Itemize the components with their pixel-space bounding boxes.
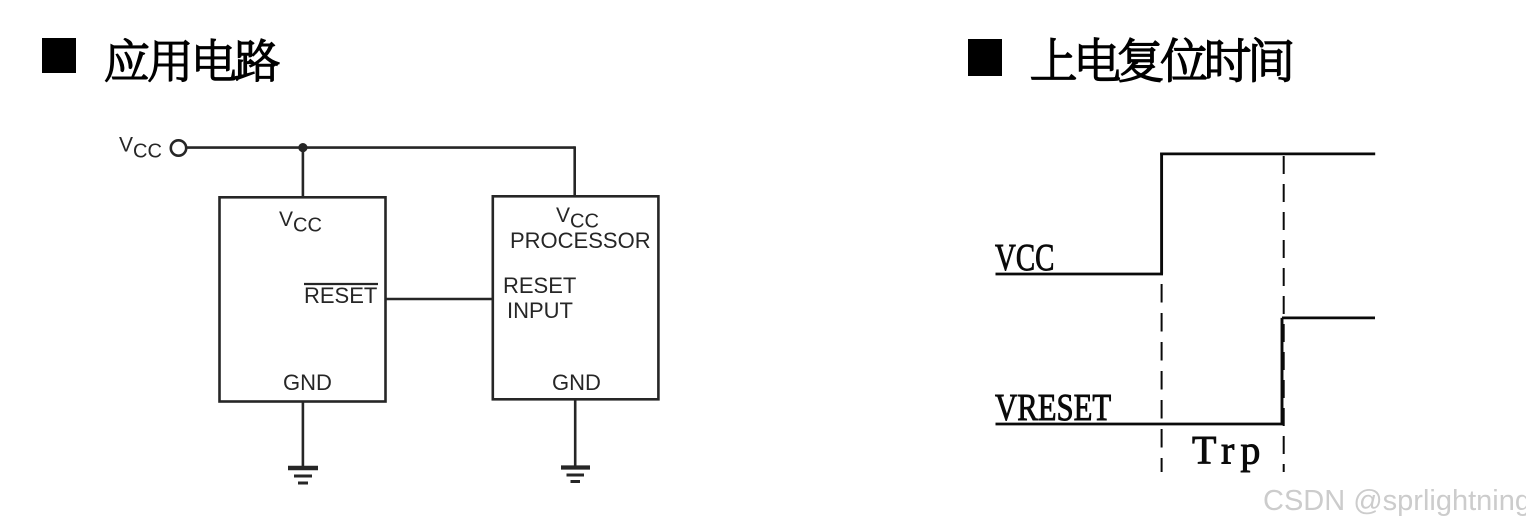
wire: U1 RESET to U2 RESET INPUT bbox=[386, 298, 492, 301]
svg-text:RESET: RESET bbox=[304, 283, 377, 308]
svg-text:INPUT: INPUT bbox=[507, 298, 573, 323]
wire: VCC rail horizontal bbox=[186, 146, 574, 149]
wire: U1 GND down to ground bbox=[302, 402, 305, 468]
IC U2 processor box bbox=[493, 196, 659, 399]
terminal circle VCC bbox=[171, 140, 186, 155]
svg-text:PROCESSOR: PROCESSOR bbox=[510, 228, 651, 253]
svg-text:Trp: Trp bbox=[1192, 428, 1266, 473]
dashed marker line t1 bbox=[1283, 156, 1285, 472]
svg-text:CSDN @sprlightning: CSDN @sprlightning bbox=[1263, 485, 1526, 517]
junction dot on VCC rail bbox=[298, 143, 307, 152]
svg-text:RESET: RESET bbox=[503, 273, 576, 298]
section bullet square (right header) bbox=[968, 39, 1002, 76]
VCC waveform high segment bbox=[1160, 152, 1375, 155]
wire: rail down to U2 VCC pin bbox=[573, 146, 576, 196]
section title 应用电路 bbox=[106, 39, 279, 81]
VCC waveform low segment bbox=[996, 273, 1164, 276]
U2 pin label RESET INPUT bbox=[503, 273, 576, 323]
svg-text:VCC: VCC bbox=[119, 134, 162, 163]
waveform label VRESET bbox=[995, 387, 1111, 429]
svg-text:VCC: VCC bbox=[279, 208, 322, 237]
ground symbol at U1 bbox=[288, 468, 318, 483]
dashed marker line t0 bbox=[1161, 284, 1163, 472]
section bullet square (left header) bbox=[42, 38, 76, 73]
svg-text:VRESET: VRESET bbox=[995, 387, 1111, 429]
section title 上电复位时间 bbox=[1032, 38, 1292, 82]
svg-text:GND: GND bbox=[283, 370, 332, 395]
ground symbol at U2 bbox=[561, 468, 590, 482]
wire: junction down to U1 VCC pin bbox=[302, 148, 305, 197]
waveform label VCC bbox=[995, 237, 1054, 279]
svg-text:GND: GND bbox=[552, 370, 601, 395]
U1 pin label RESET with overline bbox=[304, 283, 378, 308]
wire: U2 GND down to ground bbox=[574, 398, 577, 466]
VCC waveform rising edge bbox=[1160, 153, 1163, 275]
IC U1 reset-supervisor box bbox=[220, 197, 386, 401]
VRESET waveform low segment bbox=[996, 423, 1284, 426]
VRESET waveform high segment bbox=[1282, 316, 1375, 319]
VRESET waveform rising edge bbox=[1281, 318, 1284, 424]
